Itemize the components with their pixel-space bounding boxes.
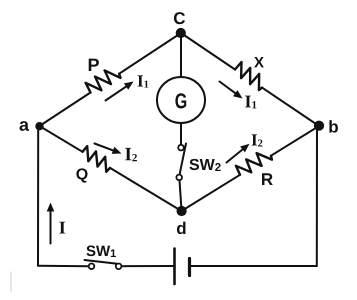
- switch SW2: [176, 144, 186, 181]
- svg-text:d: d: [176, 219, 186, 238]
- wire battery-right: [191, 265, 317, 267]
- arrow I1 left: [106, 82, 134, 101]
- node b: [314, 121, 324, 131]
- svg-text:Q: Q: [76, 166, 88, 183]
- wire SW1-battery: [121, 265, 173, 267]
- resistor Q: [83, 146, 111, 172]
- node C: [176, 28, 186, 38]
- wire a-Q: [40, 126, 83, 152]
- wire a-down: [37, 126, 39, 266]
- wire R-b: [271, 126, 319, 156]
- wire X-b: [262, 88, 319, 126]
- svg-text:a: a: [19, 115, 30, 135]
- wire d-R: [182, 175, 241, 211]
- battery B1: [175, 249, 190, 285]
- svg-text:G: G: [175, 89, 188, 113]
- resistor R: [236, 153, 272, 175]
- resistor X: [235, 62, 262, 90]
- scan artifact line: [10, 272, 12, 291]
- svg-text:I: I: [59, 217, 66, 237]
- wire P-C: [119, 33, 181, 74]
- wire Q-d: [110, 168, 182, 211]
- node a: [35, 122, 43, 130]
- svg-text:R: R: [261, 170, 273, 189]
- wire C-X: [181, 33, 235, 70]
- svg-text:P: P: [88, 55, 100, 75]
- svg-text:X: X: [254, 54, 264, 71]
- arrow I: [47, 203, 55, 244]
- arrow I2 right: [227, 144, 250, 163]
- switch SW1: [85, 260, 122, 269]
- wire a-P: [40, 93, 91, 127]
- wire C-G: [180, 36, 182, 78]
- arrow I2 left: [95, 144, 122, 154]
- svg-text:C: C: [173, 9, 185, 28]
- resistor P: [86, 70, 121, 92]
- wire G-SW2: [180, 123, 182, 145]
- node d: [177, 206, 187, 216]
- galvanometer G: [157, 77, 205, 123]
- wire bottom-left: [38, 265, 89, 268]
- wire SW2-d: [180, 180, 182, 207]
- svg-text:b: b: [328, 117, 338, 136]
- arrow I1 right: [220, 82, 243, 99]
- wire b-down: [316, 127, 318, 266]
